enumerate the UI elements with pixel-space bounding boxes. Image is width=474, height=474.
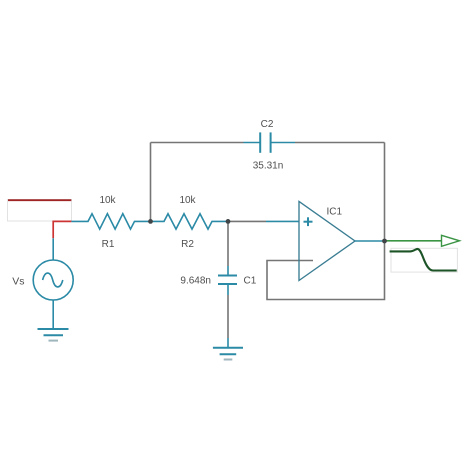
output waveform trace (green) xyxy=(390,249,457,271)
wire right vertical down to output node xyxy=(384,143,386,242)
voltage source Vs xyxy=(33,238,73,329)
node B (R2/C1/op-amp junction) xyxy=(226,219,231,224)
node A (R1/R2 junction) xyxy=(148,219,153,224)
node C (output junction) xyxy=(382,239,387,244)
wire node A up to feedback rail xyxy=(150,143,152,222)
svg-text:IC1: IC1 xyxy=(327,207,343,218)
output probe waveform box xyxy=(391,248,457,272)
wire C1 to ground xyxy=(227,295,229,338)
svg-text:10k: 10k xyxy=(179,195,196,206)
wire node B down to C1 xyxy=(227,221,229,266)
svg-text:C2: C2 xyxy=(261,119,274,130)
resistor R1 xyxy=(71,214,150,229)
svg-text:Vs: Vs xyxy=(12,276,24,288)
op-amp + marker xyxy=(304,217,313,226)
wire Vs to R1 (red highlighted net) xyxy=(53,221,71,238)
svg-text:R2: R2 xyxy=(181,239,194,250)
op-amp IC1 xyxy=(299,201,355,280)
output port arrow (green) xyxy=(385,235,460,246)
capacitor C2 xyxy=(244,132,296,152)
ground below Vs xyxy=(38,329,69,341)
wire top rail right of C2 xyxy=(295,142,385,144)
op-amp + input lead xyxy=(266,220,299,222)
ground below C1 xyxy=(213,338,243,360)
wire top rail left of C2 xyxy=(151,142,244,144)
op-amp output lead xyxy=(355,240,385,242)
wire op-amp feedback (- input to output) xyxy=(267,241,385,300)
input waveform trace (red) xyxy=(8,199,71,201)
svg-text:9.648n: 9.648n xyxy=(180,276,211,287)
svg-text:10k: 10k xyxy=(99,195,116,206)
wire node B to op-amp + input xyxy=(228,220,266,222)
resistor R2 xyxy=(151,214,229,229)
svg-text:35.31n: 35.31n xyxy=(253,161,284,172)
svg-text:C1: C1 xyxy=(244,276,257,287)
capacitor C1 xyxy=(218,266,237,295)
svg-text:R1: R1 xyxy=(102,239,115,250)
input probe waveform box xyxy=(8,200,72,222)
